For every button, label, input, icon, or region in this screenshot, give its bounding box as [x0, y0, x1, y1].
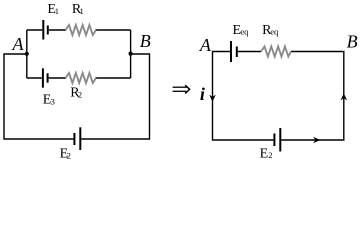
- svg-text:1: 1: [55, 6, 59, 16]
- svg-text:eq: eq: [270, 26, 279, 36]
- svg-text:2: 2: [78, 89, 82, 99]
- svg-text:E: E: [260, 146, 269, 161]
- svg-text:A: A: [199, 35, 212, 55]
- svg-text:eq: eq: [240, 26, 249, 36]
- svg-text:A: A: [12, 34, 25, 54]
- svg-text:B: B: [140, 31, 151, 51]
- svg-text:B: B: [347, 32, 358, 52]
- svg-text:1: 1: [80, 6, 84, 16]
- svg-text:i: i: [200, 84, 205, 104]
- svg-text:2: 2: [67, 151, 71, 161]
- svg-text:2: 2: [268, 150, 272, 160]
- svg-text:3: 3: [51, 97, 55, 107]
